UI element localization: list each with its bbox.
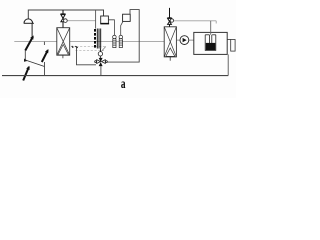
svg-text:a: a <box>121 77 126 92</box>
